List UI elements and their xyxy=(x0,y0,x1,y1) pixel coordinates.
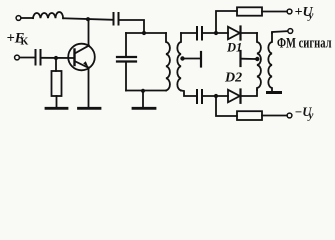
capacitor C5 xyxy=(196,90,198,103)
wire -Uy dropper xyxy=(216,96,237,116)
wire tank top rail xyxy=(126,32,166,34)
terminal input top xyxy=(16,16,21,21)
wire xyxy=(203,32,228,34)
ground T2 xyxy=(266,91,282,94)
wire tank bottom rail xyxy=(126,90,166,92)
wire center tap xyxy=(184,58,200,60)
wire xyxy=(142,91,144,108)
wire secondary top xyxy=(181,32,196,34)
transformer T2 primary xyxy=(257,33,261,90)
wire xyxy=(56,96,58,108)
svg-text:K: K xyxy=(21,37,29,48)
junction dot D1 node xyxy=(214,31,218,35)
resistor R1 xyxy=(52,71,62,96)
junction dot tank feed xyxy=(142,31,146,35)
svg-text:y: y xyxy=(307,110,314,122)
wire +Uy riser xyxy=(216,11,237,33)
wire secondary bottom xyxy=(181,91,196,97)
wire xyxy=(203,95,228,97)
svg-text:ФМ сигнал: ФМ сигнал xyxy=(277,36,332,52)
wire xyxy=(262,11,287,13)
ground base resistor xyxy=(46,107,67,110)
resistor R3 xyxy=(237,111,262,120)
label -Uy xyxy=(295,105,314,122)
capacitor C4 xyxy=(196,27,198,40)
terminal +Uy xyxy=(287,9,292,14)
wire output top xyxy=(272,31,288,33)
terminal output xyxy=(288,29,293,34)
plate left bias xyxy=(200,52,202,67)
wire xyxy=(42,57,74,59)
label +Uy xyxy=(295,5,314,22)
wire xyxy=(20,57,34,59)
wire xyxy=(242,90,258,96)
capacitor C3 xyxy=(35,50,37,65)
svg-text:D1: D1 xyxy=(226,41,242,55)
terminal input base xyxy=(15,55,20,60)
ground emitter xyxy=(79,107,101,110)
junction dot base node xyxy=(54,56,58,60)
svg-text:y: y xyxy=(307,10,314,22)
wire xyxy=(21,17,33,19)
junction dot T2 center tap xyxy=(255,57,259,61)
wire xyxy=(242,32,258,34)
diode D1 xyxy=(228,27,240,40)
junction dot center tap xyxy=(180,56,184,60)
transformer T2 secondary xyxy=(268,33,272,91)
wire xyxy=(63,18,112,20)
wire tank cap stem top xyxy=(125,33,127,56)
transformer T1 secondary xyxy=(177,33,181,91)
capacitor C2 xyxy=(117,56,136,58)
terminal -Uy xyxy=(287,113,292,118)
plate right bias xyxy=(239,51,241,66)
inductor T1 primary xyxy=(166,33,170,91)
wire emitter down xyxy=(88,68,90,108)
label +Ek xyxy=(7,31,29,48)
transistor Q1 xyxy=(68,44,95,71)
capacitor C1 xyxy=(113,13,115,25)
junction dot D2 node xyxy=(214,94,218,98)
wire xyxy=(242,58,257,60)
wire collector riser xyxy=(88,19,90,45)
junction dot collector node xyxy=(86,17,90,21)
svg-text:D2: D2 xyxy=(224,71,242,86)
wire xyxy=(262,115,287,117)
wire xyxy=(55,58,57,71)
inductor L1 xyxy=(33,12,63,18)
resistor R2 xyxy=(237,7,262,15)
ground tank xyxy=(133,107,155,110)
wire xyxy=(120,20,145,33)
junction dot tank ground node xyxy=(141,89,145,93)
diode D2 xyxy=(228,90,240,103)
